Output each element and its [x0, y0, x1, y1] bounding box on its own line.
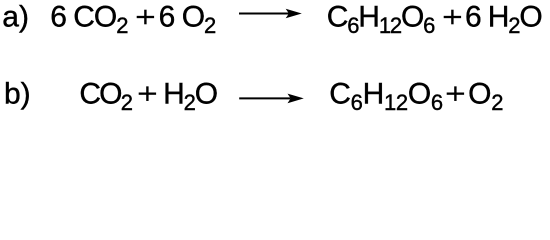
svg-text:b): b) — [4, 77, 31, 110]
plus sign P3 row b left — [139, 86, 156, 101]
svg-text:a): a) — [2, 1, 29, 34]
plus sign P4 row b right — [447, 86, 464, 101]
reaction arrow row a — [239, 9, 302, 19]
svg-text:6 CO2 + 6 O2: 6 CO2 + 6 O2 — [50, 1, 216, 38]
plus sign P2 row a right — [444, 10, 461, 25]
plus sign P1 row a left — [137, 10, 154, 25]
reaction arrow row b — [239, 94, 304, 104]
